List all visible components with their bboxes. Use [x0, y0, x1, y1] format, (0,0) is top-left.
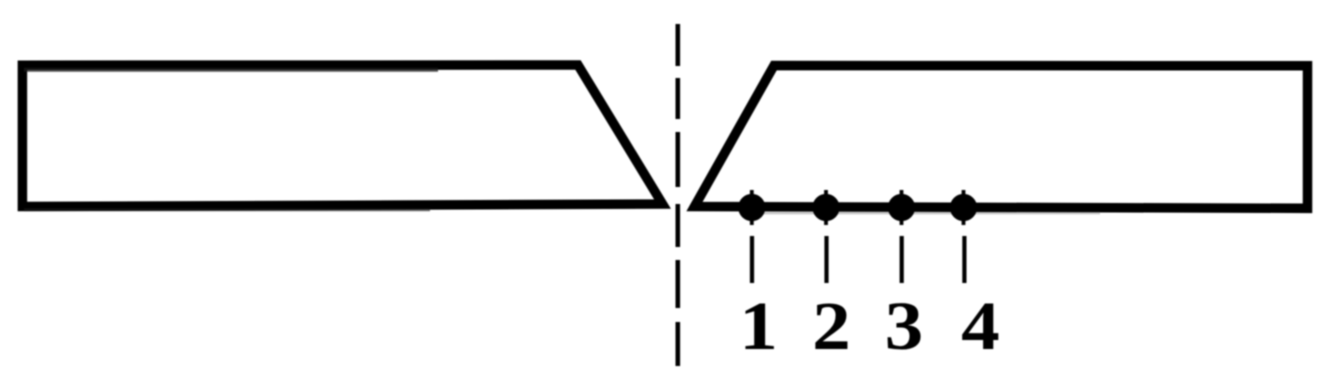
svg-text:1: 1	[739, 288, 778, 364]
leader line 2	[824, 236, 828, 283]
svg-text:4: 4	[961, 288, 1000, 364]
right plate (beveled weld plate)	[695, 66, 1308, 214]
left plate (beveled weld plate)	[22, 65, 662, 210]
point 4 marker	[950, 190, 977, 225]
point 1 marker	[738, 190, 765, 225]
leader line 4	[962, 236, 966, 283]
svg-text:3: 3	[885, 288, 924, 364]
leader line 3	[900, 236, 904, 283]
point 2 marker	[812, 190, 839, 225]
point 3 marker	[888, 190, 915, 225]
leader line 1	[750, 236, 754, 283]
weld centerline (dashed)	[675, 24, 680, 366]
svg-text:2: 2	[812, 288, 851, 364]
